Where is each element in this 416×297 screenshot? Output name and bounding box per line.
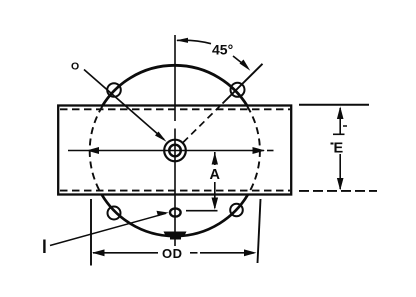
circle solid top arc	[102, 65, 247, 105]
lug top-left	[107, 83, 121, 97]
horizontal centerline	[68, 150, 264, 152]
arrowhead 45dim end pointing down-right	[240, 60, 251, 71]
dim E line upper	[339, 108, 341, 134]
circle hidden right arc	[247, 106, 260, 194]
lug top-right	[231, 83, 245, 97]
leader I line	[50, 213, 166, 245]
svg-text:E: E	[334, 141, 344, 157]
dim OD extension left	[90, 199, 92, 266]
dim E tick	[333, 133, 345, 135]
dim E extension bottom	[299, 190, 377, 192]
horizontal centerline end dash	[267, 150, 274, 152]
dim OD line dash	[190, 252, 198, 254]
arrowhead E bottom	[337, 178, 344, 190]
arrowhead leader I at hole	[157, 211, 169, 216]
45 deg dimension arc left part	[177, 40, 211, 43]
svg-text:45°: 45°	[212, 42, 233, 58]
arrowhead A bottom	[212, 198, 219, 210]
lug bottom-right	[230, 204, 243, 217]
plate rectangle	[58, 106, 291, 195]
dim A line lower	[214, 182, 216, 208]
45 deg line hidden part	[183, 104, 223, 143]
arrowhead E top	[337, 106, 344, 119]
45 deg dimension leader right part	[233, 56, 248, 68]
dim OD extension right	[258, 199, 261, 263]
vertical centerline	[174, 35, 176, 121]
dim E small dash	[343, 125, 347, 127]
arrowhead leader O at center	[155, 132, 167, 142]
arrowhead diameter left	[87, 147, 100, 154]
center inner circle	[169, 145, 181, 157]
wire	[50, 35, 377, 266]
bottom tab	[164, 232, 187, 240]
arrowhead A top	[212, 152, 218, 164]
label I	[43, 240, 45, 254]
svg-text:OD: OD	[162, 246, 183, 261]
45 deg line solid part	[223, 64, 263, 104]
hidden edge bottom	[60, 190, 290, 192]
hole I	[170, 208, 181, 216]
arrowhead OD right	[244, 249, 257, 256]
leader O line	[84, 70, 164, 140]
hidden edge top	[60, 108, 290, 110]
lug bottom-left	[108, 207, 121, 220]
dim OD line right	[200, 252, 254, 254]
svg-text:O: O	[71, 60, 79, 72]
arrowhead OD left	[92, 249, 105, 256]
circle hidden left arc	[90, 106, 103, 194]
label E tick mark	[331, 143, 334, 145]
dim OD line left	[93, 252, 158, 254]
svg-text:A: A	[210, 167, 221, 183]
dim A line upper	[214, 152, 216, 165]
center outer circle	[164, 140, 186, 162]
dim E extension top	[299, 104, 369, 106]
dim A extension line	[186, 210, 218, 212]
dim E line lower	[339, 154, 341, 189]
arrowhead diameter right	[253, 147, 266, 154]
arrowhead 45dim top pointing left	[176, 38, 188, 43]
circle solid bottom arc	[102, 195, 248, 236]
